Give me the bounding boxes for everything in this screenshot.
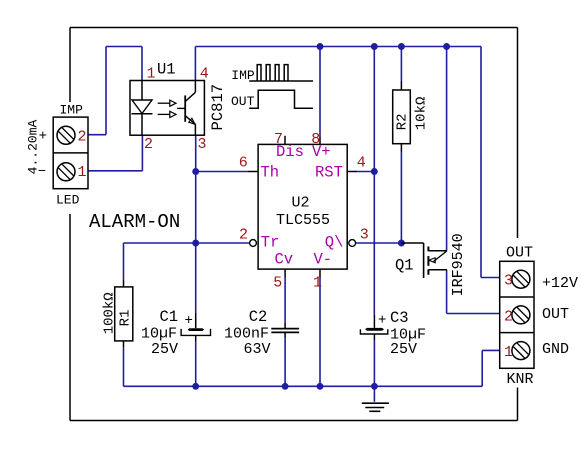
svg-text:10kΩ: 10kΩ bbox=[414, 97, 430, 131]
svg-text:Tr: Tr bbox=[261, 233, 280, 251]
svg-text:R2: R2 bbox=[395, 113, 411, 130]
svg-text:U2: U2 bbox=[292, 195, 310, 212]
svg-text:OUT: OUT bbox=[231, 94, 255, 109]
svg-text:2: 2 bbox=[78, 129, 87, 146]
svg-text:Th: Th bbox=[261, 164, 280, 182]
svg-text:Q\: Q\ bbox=[325, 233, 344, 251]
svg-text:LED: LED bbox=[56, 193, 80, 208]
svg-text:IMP: IMP bbox=[60, 103, 84, 118]
svg-text:100nF: 100nF bbox=[224, 325, 269, 342]
svg-text:3: 3 bbox=[504, 273, 513, 290]
svg-text:ALARM-ON: ALARM-ON bbox=[89, 211, 180, 233]
svg-text:63V: 63V bbox=[244, 341, 271, 358]
svg-text:+: + bbox=[378, 312, 386, 328]
svg-text:4: 4 bbox=[357, 155, 366, 172]
svg-text:2: 2 bbox=[239, 227, 248, 244]
svg-text:2: 2 bbox=[144, 136, 153, 153]
svg-text:1: 1 bbox=[147, 66, 156, 83]
svg-text:+12V: +12V bbox=[542, 275, 578, 292]
svg-text:TLC555: TLC555 bbox=[276, 212, 330, 229]
svg-text:10µF: 10µF bbox=[141, 325, 177, 342]
svg-text:C3: C3 bbox=[390, 309, 409, 327]
svg-text:KNR: KNR bbox=[506, 371, 533, 388]
svg-text:OUT: OUT bbox=[506, 244, 533, 261]
svg-text:GND: GND bbox=[542, 341, 569, 358]
svg-text:8: 8 bbox=[311, 131, 320, 148]
svg-text:2: 2 bbox=[504, 308, 513, 325]
svg-text:RST: RST bbox=[315, 164, 343, 182]
svg-text:Q1: Q1 bbox=[395, 257, 414, 275]
svg-text:4..20mA: 4..20mA bbox=[25, 119, 40, 174]
svg-text:1: 1 bbox=[504, 344, 513, 361]
svg-text:1: 1 bbox=[313, 275, 322, 292]
svg-text:IRF9540: IRF9540 bbox=[450, 233, 467, 296]
svg-text:100kΩ: 100kΩ bbox=[102, 292, 118, 334]
svg-text:C2: C2 bbox=[249, 308, 268, 326]
svg-text:IMP: IMP bbox=[231, 68, 255, 83]
svg-text:6: 6 bbox=[239, 155, 248, 172]
svg-text:U1: U1 bbox=[157, 61, 176, 79]
svg-text:3: 3 bbox=[360, 227, 369, 244]
svg-text:25V: 25V bbox=[151, 341, 178, 358]
svg-text:PC817: PC817 bbox=[209, 84, 227, 131]
svg-text:R1: R1 bbox=[118, 309, 134, 326]
svg-text:C1: C1 bbox=[160, 308, 179, 326]
svg-text:1: 1 bbox=[78, 164, 87, 181]
svg-text:+: + bbox=[185, 313, 193, 329]
svg-text:5: 5 bbox=[273, 275, 282, 292]
svg-text:V-: V- bbox=[314, 250, 333, 268]
svg-text:Cv: Cv bbox=[275, 250, 294, 268]
svg-text:OUT: OUT bbox=[542, 306, 569, 323]
svg-text:3: 3 bbox=[198, 136, 207, 153]
svg-text:25V: 25V bbox=[390, 341, 417, 358]
svg-text:7: 7 bbox=[274, 131, 283, 148]
svg-text:4: 4 bbox=[200, 66, 209, 83]
